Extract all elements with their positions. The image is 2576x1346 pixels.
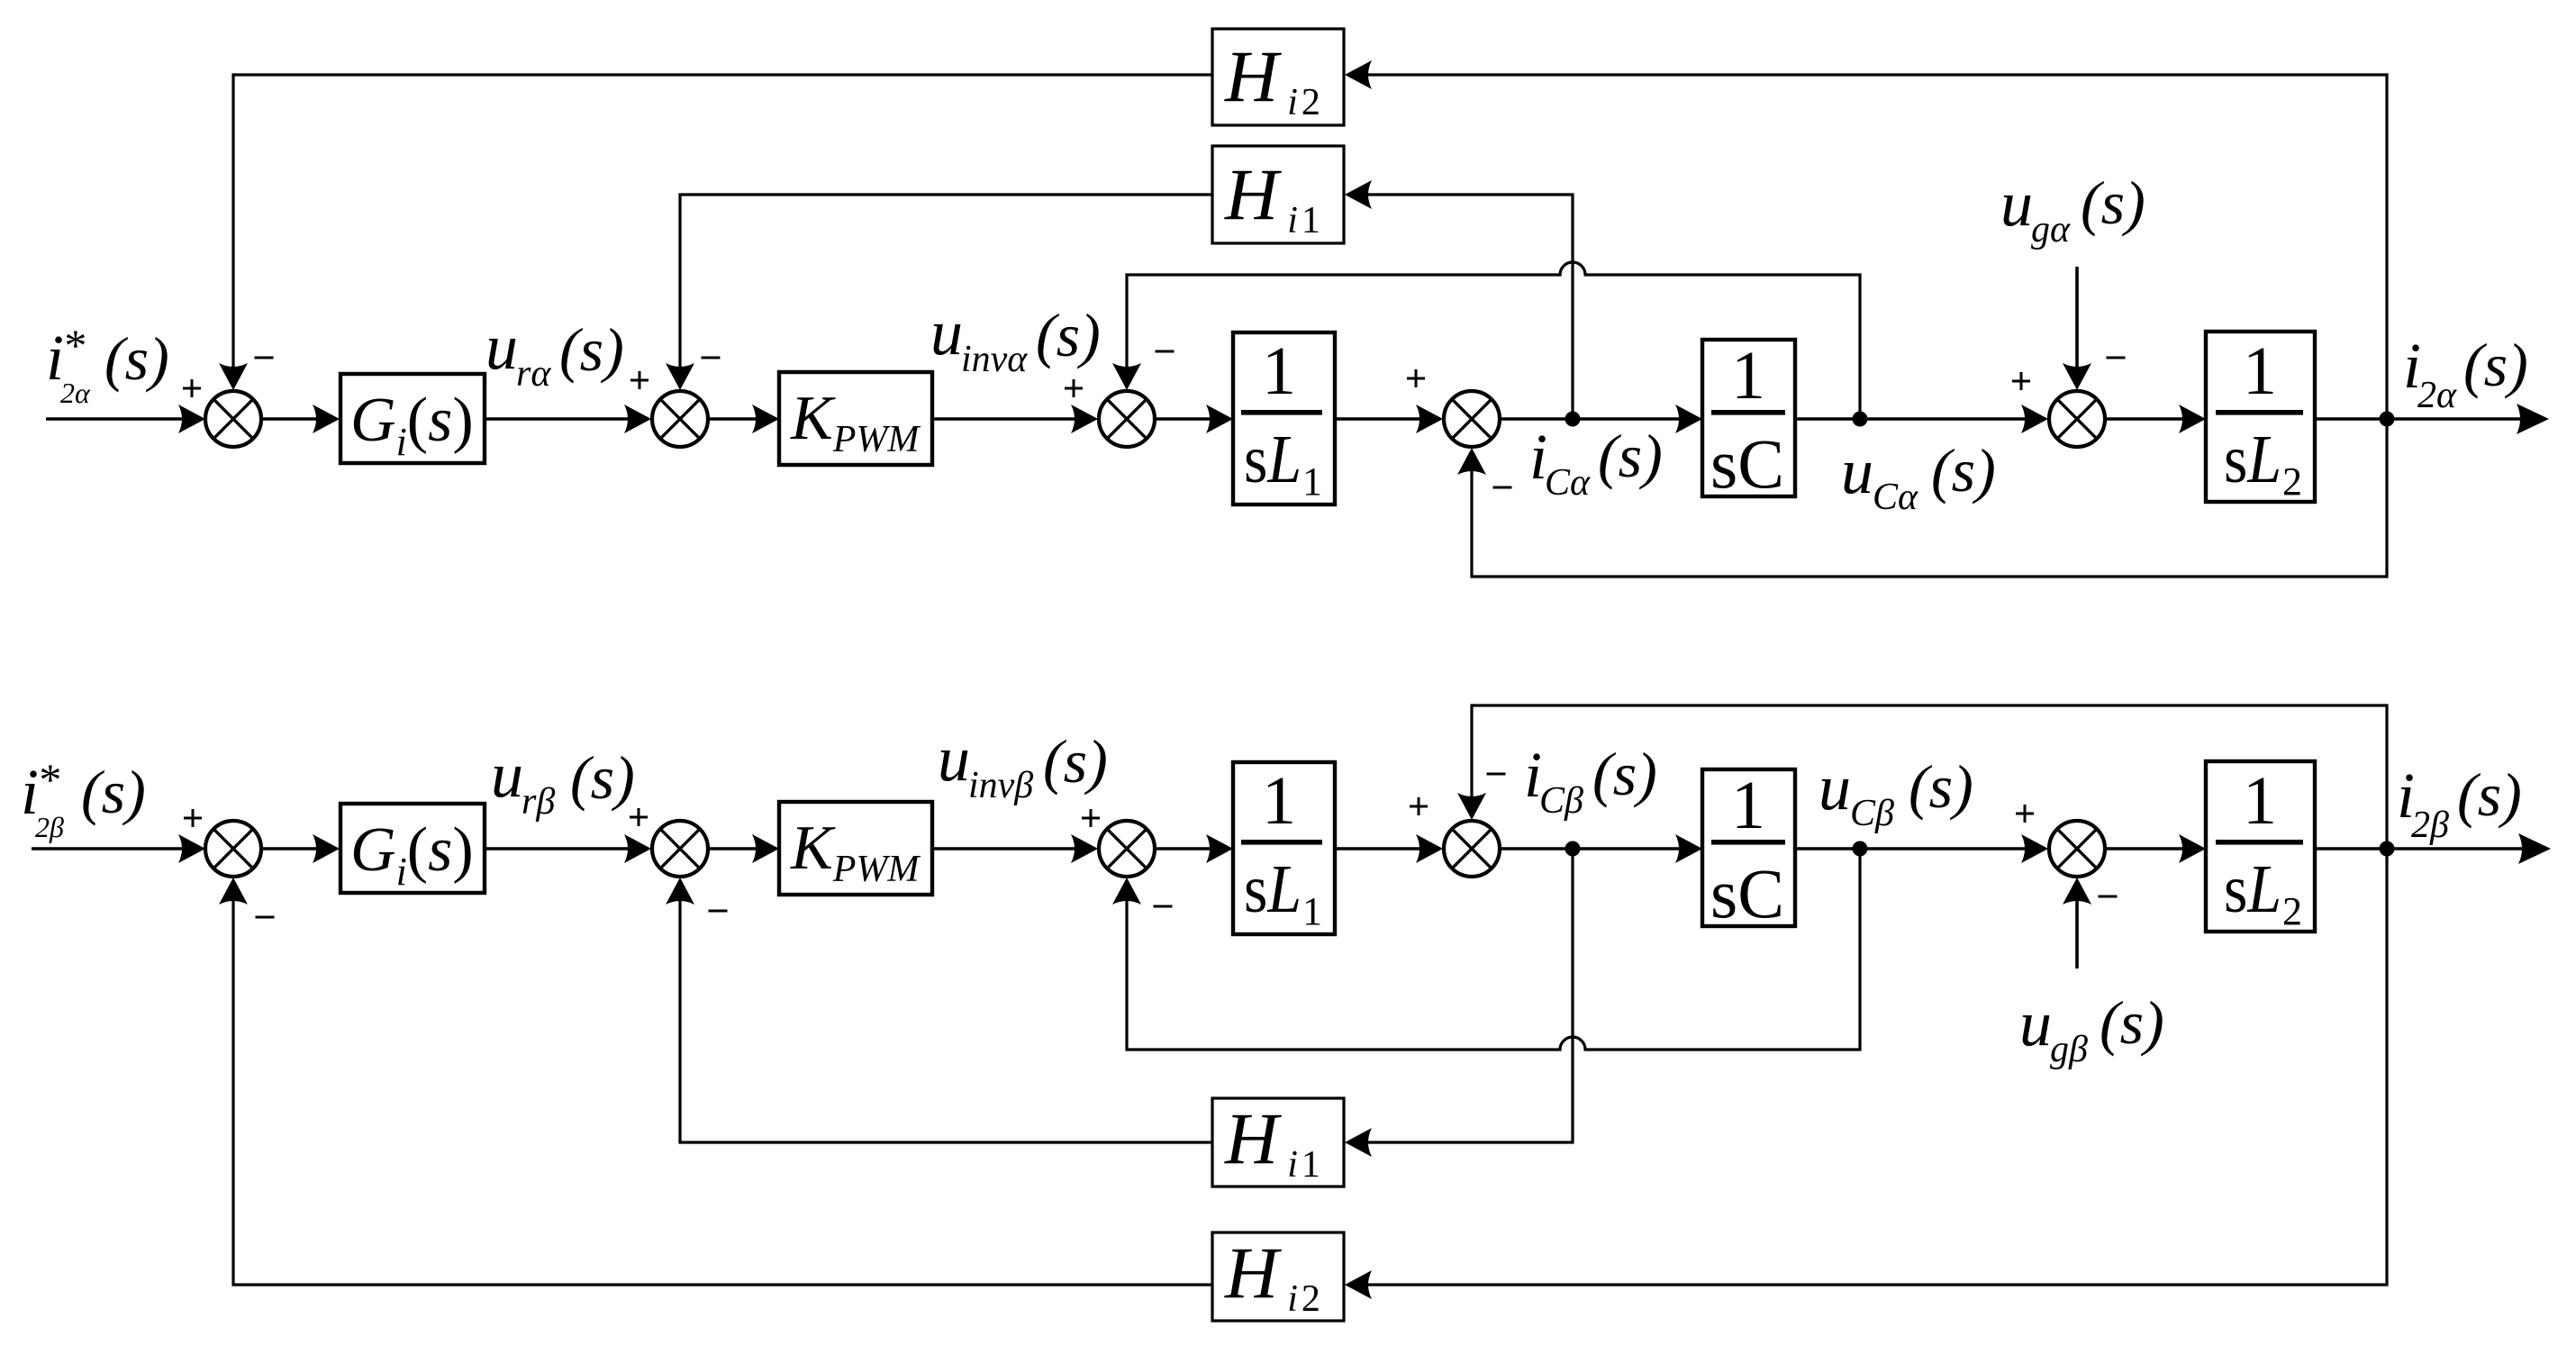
fraction bar 1/sL2 alpha [2216, 410, 2303, 415]
svg-text:1: 1 [1302, 889, 1322, 933]
plus sign at S3a [1065, 379, 1083, 397]
svg-text:u: u [1841, 435, 1873, 507]
label ura(s) alpha [485, 311, 624, 395]
wire: S3a to 1/sL1 block [1155, 417, 1229, 421]
svg-text:(s): (s) [2463, 331, 2528, 399]
svg-text:1: 1 [1262, 333, 1296, 409]
minus sign at S2b [709, 910, 728, 913]
label iCa(s) alpha [1529, 421, 1663, 504]
svg-text:1: 1 [2243, 333, 2277, 409]
arrowhead down into S5a top [2063, 363, 2091, 390]
arrowhead down into S2a top [666, 363, 694, 390]
svg-text:Cβ: Cβ [1539, 780, 1583, 822]
wire: Hi1 beta output left and up to S2b [680, 880, 1212, 1142]
wire: Hi1 output left and down to S2a [680, 195, 1212, 387]
svg-text:(s): (s) [1909, 752, 1973, 821]
svg-text:(s): (s) [1931, 436, 1996, 505]
svg-text:gβ: gβ [2050, 1029, 2088, 1070]
wire: 1/sC beta to summing node S5b, through node uCb [1795, 847, 2045, 850]
summing junction S2a (ur + , Hi1 -) [652, 391, 708, 447]
arrowhead into KPWM beta [752, 834, 779, 863]
svg-text:(s): (s) [570, 743, 635, 812]
arrowhead into S3a [1071, 405, 1098, 433]
wire: 1/sC to summing node S5a, through node uCa [1795, 417, 2045, 421]
label i2b*(s) input beta [21, 754, 146, 843]
svg-text:2: 2 [2282, 889, 2302, 933]
minus sign at S1a [255, 357, 274, 359]
wire: uga source down to S5a [2075, 267, 2079, 387]
svg-text:u: u [930, 296, 963, 368]
svg-text:(s): (s) [1036, 301, 1101, 369]
wire: uCb node down, left with hop over iCb line, up to S3b [1127, 849, 1860, 1050]
label i2b(s) output beta [2397, 759, 2522, 846]
svg-text:gα: gα [2031, 209, 2071, 250]
svg-text:(s): (s) [2100, 988, 2164, 1057]
wire: S3b to 1/sL1 beta [1155, 847, 1229, 850]
svg-text:Gi(s): Gi(s) [350, 386, 474, 464]
wire: 1/sL1 to summing node S4a [1335, 417, 1440, 421]
svg-text:(s): (s) [1598, 422, 1663, 490]
svg-text:u: u [938, 723, 970, 795]
arrowhead into S2a [624, 405, 651, 433]
wire: iCb node down and left to Hi1 beta input [1348, 849, 1573, 1142]
plus sign at S5b [2016, 805, 2034, 823]
arrowhead into Gi(s) [313, 405, 340, 433]
summing junction S3b (uinv + , uCb -) [1099, 821, 1155, 877]
arrowhead into 1/sL1 [1206, 405, 1233, 433]
svg-text:rβ: rβ [522, 781, 555, 823]
wire: KPWM to summing node S3a [932, 417, 1095, 421]
svg-text:(s): (s) [2081, 168, 2145, 237]
arrowhead down into S3a top [1112, 363, 1141, 390]
label i2a(s) output alpha [2403, 330, 2528, 416]
minus sign at S5a [2107, 357, 2126, 359]
label uinva(s) alpha [930, 296, 1101, 380]
block Gi(s) alpha [340, 374, 485, 463]
fraction bar 1/sC alpha [1711, 410, 1785, 415]
svg-text:(s): (s) [1592, 740, 1657, 808]
svg-text:invβ: invβ [968, 765, 1033, 806]
minus sign at S2a [702, 357, 721, 359]
svg-text:sL: sL [2224, 851, 2281, 927]
wire: S4b to 1/sC beta, through node iCb [1500, 847, 1699, 850]
block 1/sL1 alpha [1233, 332, 1335, 505]
arrowhead up into S5b bottom [2063, 878, 2091, 905]
svg-text:(s): (s) [2457, 760, 2522, 829]
arrowhead down into S1a top [219, 363, 248, 390]
label uga(s) alpha source [2000, 168, 2145, 250]
plus sign at S1b [184, 809, 202, 827]
wire: Hi2 output left and down to S1a [233, 75, 1212, 387]
arrowhead down into S4b top [1457, 793, 1486, 820]
plus sign at S4a [1407, 369, 1425, 387]
arrowhead into S1a [178, 405, 205, 433]
wire: KPWM beta to summing node S3b [932, 847, 1095, 850]
block 1/sC alpha [1702, 340, 1795, 496]
svg-text:u: u [485, 311, 518, 383]
node i2b output junction dot [2380, 841, 2395, 857]
label uCb(s) beta [1819, 751, 1973, 834]
wire: input i2b* to summing node S1b [32, 847, 203, 850]
output arrowhead i2a [2517, 404, 2549, 434]
minus sign at S4b [1487, 773, 1506, 776]
arrowhead up into S1b bottom [219, 878, 248, 905]
label uinvb(s) beta [938, 723, 1108, 806]
svg-text:Gi(s): Gi(s) [350, 815, 474, 894]
svg-text:Cα: Cα [1873, 477, 1918, 518]
minus sign at S5b [2099, 896, 2118, 898]
block Hi1 beta [1212, 1098, 1344, 1187]
plus sign at S4b [1410, 797, 1428, 815]
svg-text:2β: 2β [2411, 805, 2449, 846]
plus sign at S5a [2012, 372, 2030, 390]
wire: uCa node up, left with hop over iCa line, down to S3a [1127, 262, 1860, 419]
svg-text:u: u [1819, 751, 1851, 823]
wire: S2a to KPWM block [708, 417, 776, 421]
svg-text:Cα: Cα [1545, 462, 1591, 504]
plus sign at S2a [630, 371, 649, 389]
svg-text:Cβ: Cβ [1850, 793, 1894, 834]
plus sign at S2b [630, 808, 648, 826]
svg-text:u: u [2019, 987, 2052, 1060]
arrowhead into Hi2 right side [1345, 60, 1372, 89]
svg-text:u: u [2000, 168, 2033, 240]
arrowhead into S4b [1416, 834, 1443, 863]
wire: Gi(s) beta to summing node S2b [485, 847, 649, 850]
arrowhead into S1b [178, 834, 205, 863]
arrowhead into Hi1 beta right side [1345, 1128, 1372, 1157]
summing junction S3a (uinv + , uCa -) [1099, 391, 1155, 447]
block 1/sL2 alpha [2206, 332, 2315, 502]
arrowhead up into S2b bottom [666, 878, 694, 905]
wire: input i2a* to summing node S1a [46, 417, 203, 421]
node iCb junction dot [1565, 841, 1581, 857]
plus sign at S1a [183, 379, 201, 397]
arrowhead into 1/sC [1675, 405, 1702, 433]
wire: 1/sL1 beta to summing node S4b [1335, 847, 1440, 850]
minus sign at S3a [1156, 350, 1175, 353]
arrowhead up into S4a bottom [1457, 448, 1486, 475]
label i2a*(s) input alpha [46, 320, 169, 409]
minus sign at S1b [256, 916, 275, 919]
svg-text:1: 1 [2243, 763, 2277, 839]
arrowhead into 1/sC beta [1675, 834, 1702, 863]
svg-text:sL: sL [2224, 422, 2281, 497]
svg-text:*: * [62, 320, 85, 370]
svg-text:2α: 2α [60, 377, 91, 409]
svg-text:2β: 2β [35, 811, 64, 843]
wire: S1a to Gi(s) block [261, 417, 337, 421]
arrowhead into Hi1 right side [1345, 180, 1372, 209]
summing junction S5b (uCb + , ugb -) [2049, 821, 2105, 877]
svg-text:(s): (s) [81, 758, 146, 826]
arrowhead into S5a [2021, 405, 2048, 433]
wire: i2b node up, left, down to S4b top [1472, 705, 2387, 849]
block Hi2 beta [1212, 1232, 1344, 1321]
node uCa junction dot [1853, 412, 1868, 427]
arrowhead into S4a [1416, 405, 1443, 433]
wire: iCa node up and left to Hi1 input [1348, 195, 1573, 419]
svg-text:1: 1 [1731, 768, 1765, 843]
svg-text:sC: sC [1710, 424, 1784, 503]
svg-text:1: 1 [1262, 763, 1296, 839]
summing junction S1a (i2a* + , Hi2 -) [205, 391, 261, 447]
arrowhead into Gi(s) beta [313, 834, 340, 863]
arrowhead into 1/sL2 beta [2179, 834, 2206, 863]
block 1/sC beta [1702, 769, 1795, 926]
block KPWM alpha [779, 372, 932, 465]
arrowhead into Hi2 beta right side [1345, 1270, 1372, 1299]
arrowhead into S2b [624, 834, 651, 863]
wire: S5a to 1/sL2 block [2105, 417, 2202, 421]
block KPWM beta [779, 802, 932, 895]
svg-text:2: 2 [2282, 459, 2302, 504]
svg-text:rα: rα [516, 353, 551, 395]
svg-text:sL: sL [1244, 851, 1302, 927]
wire: S5b to 1/sL2 beta [2105, 847, 2202, 850]
arrowhead up into S3b bottom [1112, 878, 1141, 905]
wire: i2a node down, left, up to S4a bottom [1472, 419, 2387, 577]
label urb(s) beta [491, 739, 635, 823]
minus sign at S4a [1493, 487, 1512, 489]
block Hi1 alpha [1212, 146, 1344, 243]
block Hi2 alpha [1212, 29, 1344, 125]
svg-text:(s): (s) [104, 324, 169, 393]
arrowhead into 1/sL2 [2179, 405, 2206, 433]
wire: Hi2 beta output left and up to S1b [233, 880, 1212, 1285]
wire: ugb source up to S5b [2075, 881, 2079, 969]
wire: 1/sL2 beta to output i2b [2315, 847, 2547, 850]
fraction bar 1/sL1 alpha [1241, 410, 1322, 415]
svg-text:1: 1 [1731, 338, 1765, 414]
wire: S2b to KPWM beta [708, 847, 776, 850]
svg-text:invα: invα [961, 339, 1028, 380]
wire: S4a to 1/sC block, through node iCa [1500, 417, 1699, 421]
svg-text:(s): (s) [1043, 727, 1108, 796]
wire: i2b node down and left to Hi2 beta input [1348, 849, 2387, 1285]
label iCb(s) beta [1524, 739, 1657, 822]
block Gi(s) beta [340, 804, 485, 893]
svg-text:1: 1 [1302, 459, 1322, 504]
block 1/sL1 beta [1233, 762, 1335, 934]
label uCa(s) alpha [1841, 435, 1996, 518]
svg-text:sL: sL [1244, 422, 1302, 497]
block 1/sL2 beta [2206, 761, 2315, 932]
svg-text:sC: sC [1710, 854, 1784, 932]
summing junction S1b (i2b* + , Hi2 -) [205, 821, 261, 877]
node i2a output junction dot [2380, 412, 2395, 427]
wire: i2a node up and left to Hi2 input [1348, 75, 2387, 419]
summing junction S4a (i1a + , i2a -) [1444, 391, 1500, 447]
arrowhead into S3b [1071, 834, 1098, 863]
node uCb junction dot [1853, 841, 1868, 857]
svg-text:2α: 2α [2417, 375, 2457, 416]
summing junction S4b (i1b + , i2b -) [1444, 821, 1500, 877]
svg-text:(s): (s) [559, 315, 624, 384]
fraction bar 1/sC beta [1711, 840, 1785, 845]
wire: S1b to Gi(s) block beta [261, 847, 337, 850]
plus sign at S3b [1082, 809, 1100, 827]
arrowhead into 1/sL1 beta [1206, 834, 1233, 863]
svg-text:u: u [491, 739, 523, 811]
label ugb(s) beta source [2019, 987, 2164, 1070]
minus sign at S3b [1154, 905, 1173, 908]
arrowhead into KPWM [752, 405, 779, 433]
wire: 1/sL2 to output i2a [2315, 417, 2545, 421]
fraction bar 1/sL2 beta [2216, 840, 2303, 845]
fraction bar 1/sL1 beta [1241, 840, 1322, 845]
summing junction S5a (uCa + , uga -) [2049, 391, 2105, 447]
wire: Gi(s) to summing node S2a [485, 417, 649, 421]
svg-text:*: * [37, 754, 59, 805]
output arrowhead i2b [2518, 833, 2551, 864]
arrowhead into S5b [2021, 834, 2048, 863]
summing junction S2b (ur + , Hi1 -) [652, 821, 708, 877]
node iCa junction dot [1565, 412, 1581, 427]
